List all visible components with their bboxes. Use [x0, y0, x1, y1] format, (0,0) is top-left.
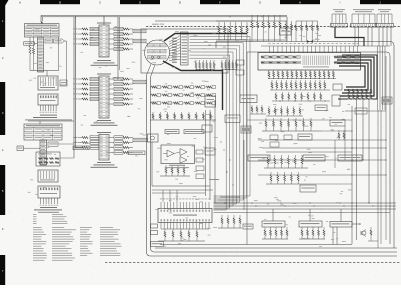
small box right mid [355, 108, 367, 114]
board connector CN702 bracket [352, 14, 375, 24]
third parts row under IC601 [272, 92, 330, 102]
coil L501 boxes [151, 224, 158, 228]
label box right of CN602 [60, 80, 67, 86]
svg-text:SERVO PCB: SERVO PCB [152, 24, 164, 26]
pin ladder P601 center column [38, 37, 44, 72]
CN203 wide row boxes [73, 146, 89, 150]
wire drop to CN-201 block A [103, 17, 105, 25]
CD mechanism outline box [141, 29, 228, 73]
parts legend table [33, 214, 122, 261]
IC501 tall stubs [162, 190, 164, 202]
IC201 box left of panel [205, 96, 216, 107]
signal rows from CN901 to main board with bent bus [190, 37, 251, 211]
svg-text:A: A [19, 0, 21, 4]
thick power trace from CN701 [335, 27, 364, 46]
option box right [48, 142, 58, 146]
label CN603 (CD mechanism control) [40, 115, 57, 116]
IC501 bottom pin stubs [161, 223, 209, 230]
svg-text:C: C [99, 0, 101, 4]
box center column B [202, 125, 212, 132]
board connector CN606 [38, 186, 60, 198]
top supply bus drop at 287 [286, 17, 288, 42]
CN203 left wing components [73, 136, 99, 149]
xtal box lower [240, 95, 257, 103]
drops from label boxes to rails [272, 209, 274, 221]
servo board outline (inner) [151, 77, 398, 252]
board connector CN703 bracket [377, 14, 392, 24]
CN203 right wing components [109, 136, 133, 154]
thick trace bottom (motor drive) [163, 61, 223, 110]
connector CN601 interface table box [25, 24, 60, 38]
box center column A [225, 115, 240, 123]
regulator box IC905 [280, 28, 292, 35]
wire riser right x74 [73, 17, 75, 121]
interface discretes center-bottom [218, 215, 253, 229]
extra long rail [214, 212, 391, 214]
board connector CN702 pin bar [351, 24, 377, 28]
small box left panel edge [205, 148, 215, 155]
op-amp A [167, 150, 174, 157]
svg-text:F: F [219, 0, 221, 4]
wire riser join to CN203 [76, 120, 84, 148]
capacitor row C921 [150, 112, 216, 120]
extra small boxes center-bottom [196, 166, 204, 171]
svg-text:H: H [299, 0, 301, 4]
label box MODE LIGHT [330, 222, 352, 228]
lamp driver cluster B [299, 227, 325, 239]
pin ladder P602 central [40, 140, 47, 165]
connector CN604 interface table box [24, 124, 62, 140]
right panel mid horizontals [258, 139, 386, 141]
connector CN201 title [97, 23, 111, 24]
discretes near crystal [338, 130, 340, 133]
label box CD/LD REV [184, 130, 204, 134]
label CN606 [40, 207, 57, 208]
svg-text:E: E [179, 0, 181, 4]
transistor Q702 bottom right [362, 231, 366, 235]
resistor chain right bottom [370, 227, 372, 230]
top registration strip with grid letters A-J [0, 0, 401, 6]
bundle junction dots [224, 150, 225, 151]
board connector CN701 pin bar [331, 24, 348, 28]
pin header CN605 [38, 170, 58, 182]
misc discretes under op-amp [196, 150, 203, 154]
long vertical rails [205, 110, 207, 196]
thick trace top (laser supply) [164, 34, 247, 42]
servo board outline (outer) [147, 75, 398, 256]
board connector CN701 label [333, 8, 345, 11]
IC501 servo DSP [158, 209, 212, 223]
board connector CN703 pin bar [376, 24, 394, 28]
board connector CN603 [38, 94, 58, 105]
flex cable header ladder CN901 [181, 32, 189, 65]
lamp driver cluster A [262, 227, 288, 239]
wires inside IC301 [163, 153, 167, 155]
small box mid panel 2 [270, 142, 279, 147]
connector box with jack J901 [148, 134, 159, 142]
connector CN202 title [97, 74, 111, 75]
label CN202 [97, 120, 111, 121]
caps near xtal [250, 105, 266, 114]
harness drop into CN601 with arrow [40, 15, 42, 22]
small box mid panel [315, 105, 327, 111]
resistor array RA902 [221, 60, 237, 70]
wires mode light [332, 227, 334, 245]
motor terminals inside M901 [151, 56, 153, 58]
board connector CN703 label [378, 8, 391, 11]
label box KS-501A [151, 242, 164, 247]
servo board dashed boundary [146, 26, 401, 28]
op-amp B [180, 149, 187, 156]
bus line y21 [216, 20, 255, 22]
board connector CN702 label [353, 8, 374, 11]
connector pins CN606 [40, 198, 42, 204]
connector CN203 title [97, 132, 111, 133]
buffer transistors Q601 Q602 [236, 60, 244, 65]
main board outline inner [247, 52, 390, 244]
connector CN201 central header [99, 25, 109, 57]
wire main harness bus top-left (double line) [41, 14, 287, 16]
crystal hatched box [241, 126, 251, 133]
page fold dashed border bottom [105, 261, 401, 263]
pin header CN602 [38, 76, 58, 90]
label CN203 [97, 162, 111, 163]
CN202 right secondary box [133, 80, 146, 84]
main board outline outer [216, 42, 394, 249]
right edge bus columns [378, 46, 386, 248]
connector pins CN603 [40, 105, 42, 111]
signal label boxes right of P601 [45, 39, 53, 43]
decoupling row across servo boundary [216, 22, 285, 40]
CN201 right wing components [109, 27, 133, 50]
extra verticals right panel [344, 126, 346, 160]
fill-in decoupling parts x286-292 [285, 21, 287, 24]
hatched box right edge [382, 97, 392, 104]
CN703 lead wires [378, 27, 380, 46]
wire x118 drop to CN202 [117, 76, 119, 79]
resistor array RA901 below signal rows [195, 60, 215, 70]
mid cluster B (key matrix resistors) [264, 155, 316, 192]
label box CN-ILLUM [299, 221, 322, 227]
vertical rails to lower panel [351, 106, 353, 244]
label 4.7k 1/2W [209, 179, 219, 180]
CN201 right secondary box [133, 29, 146, 33]
junction bus y70.5 [30, 70, 59, 72]
extended rail y111 [345, 110, 386, 112]
pull-up resistor grid 4.7k [348, 89, 373, 100]
IC601 interior winged rows right [334, 56, 359, 64]
resistor columns under IC601 band2 [270, 80, 330, 90]
junction node A on panel top wire [307, 40, 313, 42]
resistor columns under IC601 band1 [268, 70, 336, 79]
board connector CN701 bracket [332, 14, 346, 24]
IC601 top pin stubs with labels [261, 43, 390, 53]
label under op-amp IC301 [169, 164, 185, 167]
IC501 top pin stubs [160, 199, 210, 209]
signal name label column [172, 38, 177, 63]
thick bus traces around IC601 right end [337, 55, 377, 100]
wire double drop x118 [117, 17, 119, 76]
rail extensions right panel [322, 130, 352, 132]
IC601 interior winged rows left [261, 56, 300, 64]
boxes left of thick traces [333, 84, 342, 90]
wire bus into assembly 2 [28, 120, 74, 122]
IC601 system control micro [258, 53, 361, 71]
svg-text:D: D [139, 0, 141, 4]
box right edge rail [58, 37, 60, 71]
label box CN-LIGHT [262, 221, 285, 227]
op-amp C [180, 157, 187, 164]
svg-text:B: B [59, 0, 61, 4]
IC601 interior center pin ticks [303, 56, 330, 68]
bottom rail wires [155, 247, 397, 249]
component designator text marks [28, 26, 352, 247]
ceramic row right [295, 21, 319, 42]
op-amp IC301 (servo driver) [161, 145, 195, 164]
connector CN202 central header [99, 76, 109, 118]
second decoupling group [251, 15, 281, 41]
label box row CLK/TN/PW [248, 155, 270, 161]
dots right rails [351, 139, 352, 140]
CN202 right wing components [109, 77, 133, 105]
aux box left (test point 2) [17, 146, 24, 151]
caps under IC301 [160, 165, 190, 176]
extra discrete row upper mid panel [266, 106, 303, 116]
aux box left (test point) [24, 42, 35, 45]
crystal X601 [330, 120, 345, 126]
wires y190 center [152, 189, 213, 191]
connector CN203 central header [99, 135, 109, 161]
svg-text:A: A [315, 37, 317, 41]
mid cluster A (reset / clock) [262, 118, 322, 140]
pickup internal block grid [148, 44, 167, 59]
long signal wires to right edge [258, 159, 386, 161]
resistor network rows R911-R93x [150, 86, 216, 105]
wire pickup down-left exit [147, 64, 152, 75]
label CN201 [97, 60, 111, 61]
right edge rail [385, 56, 387, 240]
CN201 right secondary box [133, 39, 146, 43]
vertical jumpers J601 J602 [29, 37, 31, 46]
label box TRAY MOTOR [165, 130, 179, 134]
CN202 left wing components [73, 77, 99, 100]
CN201 left wing components [73, 27, 99, 45]
driver pack box with resistors [36, 152, 60, 166]
wire fan from pickup to CN901 [169, 36, 181, 61]
wire vertical riser x75 [75, 17, 77, 120]
junction dots on rails [224, 202, 225, 203]
left registration strip with grid numbers [0, 0, 5, 285]
CN702 lead wires [354, 27, 356, 46]
wire from arrow box down [60, 41, 67, 85]
second bus y21 [155, 20, 287, 22]
pickup/spindle motor circle M901 [145, 40, 170, 65]
svg-text:G: G [259, 0, 261, 4]
junction dots rails [352, 203, 353, 204]
CN203 right secondary box [133, 138, 147, 142]
caps under IC501 [158, 229, 205, 241]
